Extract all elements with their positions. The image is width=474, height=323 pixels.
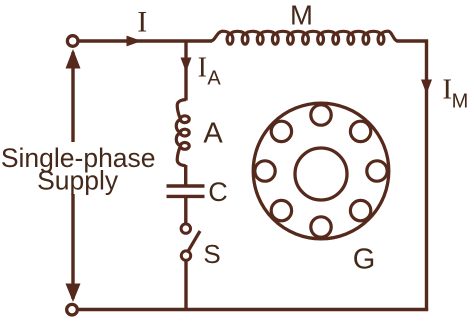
supply arrowhead down — [66, 284, 81, 303]
switch S blade — [189, 231, 201, 251]
rotor conductor bar (right) — [367, 161, 387, 181]
capacitor C bottom plate — [167, 195, 205, 198]
supply arrowhead up — [66, 49, 81, 69]
supply arrow shaft (upper segment) — [71, 52, 74, 142]
wire: coil A to capacitor C — [184, 165, 187, 185]
terminal: bottom-left supply terminal — [67, 304, 78, 315]
switch S bottom contact — [181, 251, 190, 260]
inductor M (main winding) — [211, 31, 398, 44]
rotor conductor bar (bottom-left) — [271, 200, 291, 220]
rotor conductor bar (bottom-right) — [350, 200, 370, 220]
svg-text:S: S — [203, 239, 220, 269]
capacitor C top plate — [167, 184, 205, 187]
supply arrow shaft (lower segment) — [71, 194, 74, 299]
rotor conductor bar (top-left) — [271, 121, 291, 141]
switch S top contact — [181, 224, 190, 233]
svg-text:C: C — [208, 177, 228, 207]
motor shaft inner circle — [295, 148, 347, 200]
arrow: line current I arrowhead on top wire — [127, 36, 142, 47]
inductor A (auxiliary winding) — [176, 100, 189, 166]
svg-text:M: M — [452, 90, 469, 112]
wire: switch S to bottom wire — [184, 260, 187, 310]
svg-text:M: M — [290, 0, 313, 30]
rotor conductor bar (left) — [255, 161, 275, 181]
motor stator outer circle — [253, 103, 389, 239]
terminal: top-left supply terminal — [67, 36, 78, 47]
wire: capacitor C to switch S — [184, 197, 187, 224]
wire: top wire from left terminal to coil M — [78, 39, 212, 42]
wire: bottom wire — [78, 308, 428, 311]
svg-text:I: I — [442, 73, 452, 105]
rotor conductor bar (top-right) — [350, 121, 370, 141]
arrow: current I_A arrowhead on auxiliary branch — [181, 58, 192, 73]
rotor conductor bar (bottom) — [311, 217, 331, 237]
wire: from coil M to top-right corner and down right side — [397, 41, 427, 310]
svg-text:G: G — [353, 244, 376, 276]
svg-text:I: I — [137, 6, 147, 39]
rotor conductor bar (top) — [311, 105, 331, 125]
svg-text:A: A — [203, 118, 223, 150]
wire: auxiliary branch from top wire down to coil A — [184, 41, 187, 101]
arrow: current I_M arrowhead on right wire — [421, 80, 432, 95]
svg-text:A: A — [207, 68, 221, 90]
svg-text:Supply: Supply — [37, 165, 119, 195]
svg-text:I: I — [198, 53, 207, 84]
